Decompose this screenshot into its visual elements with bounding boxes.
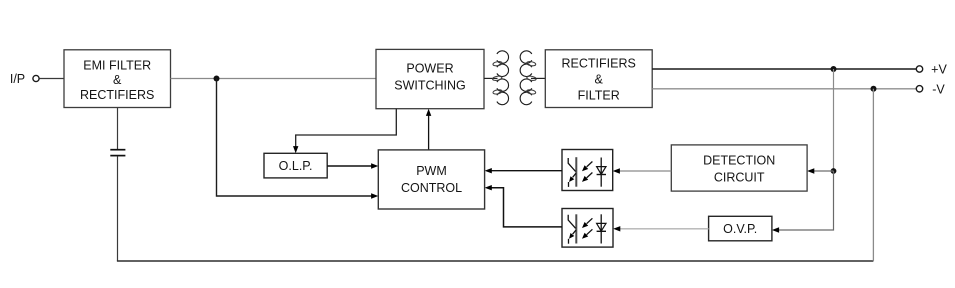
wire -V junction to bottom rail: [872, 89, 874, 261]
svg-text:CONTROL: CONTROL: [401, 181, 462, 195]
RECTIFIERS & FILTER block: [545, 50, 652, 108]
U1 photon arrow 2: [587, 173, 593, 178]
U1 LED diode: [600, 158, 602, 187]
wire U1 to PWM CONTROL: [491, 170, 563, 172]
svg-text:SWITCHING: SWITCHING: [394, 79, 466, 93]
svg-text:FILTER: FILTER: [578, 88, 620, 102]
svg-text:&: &: [595, 72, 604, 86]
arrowhead into PWM right (upper): [485, 168, 492, 173]
U2 collector lead: [568, 215, 575, 229]
input terminal I/P: [10, 72, 39, 86]
svg-text:PWM: PWM: [416, 164, 447, 178]
U2 phototransistor base bar: [575, 214, 577, 243]
O.V.P. block: [709, 216, 772, 241]
svg-text:+V: +V: [931, 63, 947, 77]
wire POWER SWITCHING to O.L.P.: [296, 109, 397, 148]
wire EMI filter bottom to capacitor C1: [117, 108, 119, 150]
wire POWER SWITCHING to transformer primary: [484, 77, 498, 79]
arrowhead into POWER SWITCHING bottom: [426, 109, 431, 116]
wire +V junction down to detection node: [833, 69, 835, 171]
wire capacitor C1 to bottom rail: [117, 156, 119, 261]
POWER SWITCHING block: [376, 49, 484, 108]
U1 emitter lead with arrow: [573, 173, 576, 177]
svg-text:O.L.P.: O.L.P.: [279, 159, 313, 173]
wire O.V.P. to optocoupler U2: [619, 228, 709, 230]
wire O.L.P. to PWM CONTROL: [327, 165, 372, 167]
bottom return rail: [117, 260, 874, 262]
svg-text:RECTIFIERS: RECTIFIERS: [80, 88, 154, 102]
wire node A to PWM CONTROL: [217, 79, 373, 197]
U2 photon arrow 2: [587, 229, 593, 234]
U1 collector lead: [568, 158, 575, 172]
wire DETECTION to optocoupler U1: [619, 170, 672, 172]
arrowhead into O.L.P. top: [293, 146, 298, 153]
junction dot on -V: [871, 86, 877, 92]
svg-text:EMI FILTER: EMI FILTER: [83, 59, 151, 73]
svg-text:CIRCUIT: CIRCUIT: [714, 170, 765, 184]
arrowhead into PWM left (lower): [371, 193, 378, 198]
wire PWM CONTROL to POWER SWITCHING (drive): [428, 115, 430, 150]
+V terminal: [916, 66, 922, 72]
wire I/P to EMI filter: [40, 78, 65, 80]
wire node B to DETECTION CIRCUIT: [812, 170, 834, 172]
junction dot on +V: [831, 66, 837, 72]
U1 photon arrow 1: [587, 162, 593, 167]
arrowhead into U2 right edge: [613, 226, 620, 231]
wire EMI filter to POWER SWITCHING: [171, 78, 377, 80]
junction node B: [831, 168, 837, 174]
arrowhead into U1 right edge: [613, 168, 620, 173]
arrowhead into O.V.P. right edge: [772, 227, 779, 232]
O.L.P. block: [264, 153, 327, 178]
svg-text:DETECTION: DETECTION: [703, 153, 775, 167]
junction node A: [214, 76, 220, 82]
capacitor C1: [110, 150, 125, 156]
svg-text:O.V.P.: O.V.P.: [723, 222, 757, 236]
svg-text:I/P: I/P: [10, 72, 25, 86]
wire U2 to PWM CONTROL: [491, 188, 563, 227]
wire node B down to O.V.P.: [778, 171, 834, 230]
U1 phototransistor base bar: [575, 157, 577, 187]
U2 emitter lead with arrow: [573, 230, 576, 234]
+V output wire: [652, 68, 916, 70]
U2 LED diode: [600, 214, 602, 243]
transformer T1 secondary winding: [520, 51, 536, 105]
svg-text:POWER: POWER: [406, 62, 453, 76]
DETECTION CIRCUIT block: [671, 145, 807, 191]
transformer T1 primary winding: [492, 51, 508, 105]
-V output wire: [652, 88, 916, 90]
PWM CONTROL block: [378, 150, 484, 209]
svg-text:&: &: [113, 73, 122, 87]
-V terminal: [916, 86, 922, 92]
optocoupler U2: [562, 209, 613, 248]
EMI filter block: [64, 50, 171, 108]
arrowhead into PWM right (lower): [485, 185, 492, 190]
arrowhead into PWM left (upper): [371, 163, 378, 168]
svg-text:RECTIFIERS: RECTIFIERS: [562, 56, 636, 70]
U2 photon arrow 1: [587, 218, 593, 223]
optocoupler U1: [562, 150, 613, 191]
svg-text:-V: -V: [932, 82, 945, 96]
wire transformer secondary to RECTIFIERS: [531, 77, 545, 79]
arrowhead into DETECTION right edge: [807, 168, 814, 173]
